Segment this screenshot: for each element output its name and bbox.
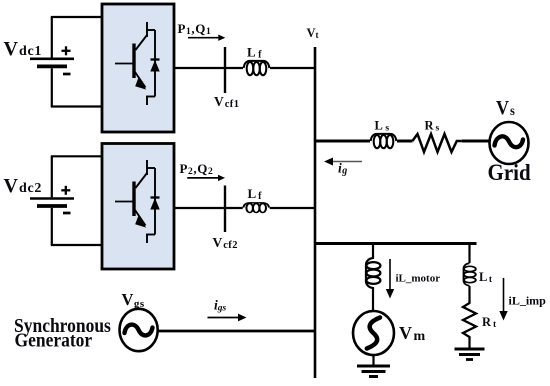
wire battery2 top to inverter 2 <box>51 155 102 157</box>
inverter box 2 <box>102 144 174 270</box>
wire battery1 bottom to inverter 1 <box>51 105 102 107</box>
AC source Vs circle <box>490 122 529 164</box>
wire inverter 2 output to bus <box>174 207 316 209</box>
arrow igs <box>208 314 247 322</box>
resistor Rt <box>463 301 476 339</box>
wire bus to load branches <box>315 242 477 245</box>
inductor Lt <box>464 263 476 286</box>
wire load branch middle <box>468 286 470 301</box>
arrow ig <box>324 158 362 166</box>
arrow P1,Q1 <box>188 35 225 41</box>
arrow iL_imp <box>499 278 507 321</box>
bus vertical line <box>314 47 317 378</box>
battery Vdc1 <box>30 17 74 107</box>
node Vcf2 tick <box>224 186 226 233</box>
wire bus to inductor Ls <box>315 140 370 143</box>
node Vcf1 tick <box>224 47 226 93</box>
inverter box 1 <box>102 4 174 132</box>
svg-text:Grid: Grid <box>488 159 532 185</box>
wire battery1 top to inverter 1 <box>51 16 102 18</box>
sine wave of Vgs <box>125 325 153 336</box>
IGBT Q of inverter 1 <box>115 22 160 105</box>
arrow P2,Q2 <box>187 175 225 181</box>
wire motor branch lower <box>372 287 374 312</box>
resistor Rs <box>412 134 461 152</box>
inductor Lf (top) <box>244 61 270 75</box>
wire Rt to ground <box>468 339 470 349</box>
AC source Vgs circle <box>120 309 158 351</box>
IGBT Q of inverter 2 <box>115 160 160 243</box>
svg-text:iL_imp: iL_imp <box>509 294 547 308</box>
wire Rs to Vs <box>462 140 490 143</box>
wire Vm to ground <box>372 355 374 366</box>
ground of Rt <box>455 349 485 360</box>
ground of Vm <box>357 366 390 377</box>
sine wave of Vm <box>367 318 380 349</box>
wire load branch upper <box>468 244 470 264</box>
inductor Lf (bottom, flatter loops) <box>243 203 269 213</box>
svg-text:iL_motor: iL_motor <box>396 273 441 285</box>
inductor of motor branch <box>366 258 380 288</box>
wire Ls to Rs <box>397 140 413 143</box>
arrow iL_motor <box>386 259 394 299</box>
wire motor branch upper <box>372 244 374 260</box>
wire inverter 1 output to bus <box>174 67 316 69</box>
inductor Ls <box>371 134 397 148</box>
wire battery2 bottom to inverter 2 <box>51 244 102 246</box>
svg-text:Generator: Generator <box>15 330 93 352</box>
wire generator to bus <box>158 330 317 333</box>
sine wave of Vs <box>495 136 524 147</box>
battery Vdc2 <box>30 156 74 245</box>
AC source Vm circle <box>353 311 394 355</box>
